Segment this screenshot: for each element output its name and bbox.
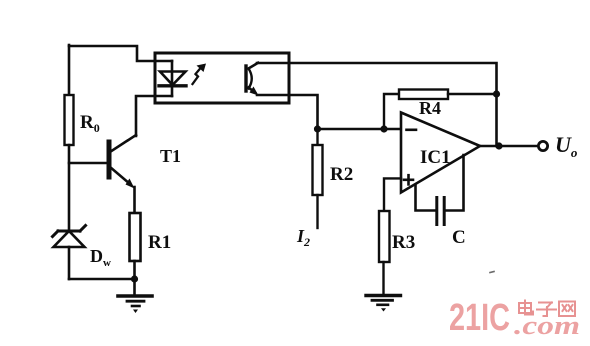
resistor R4 (399, 90, 448, 100)
wire bottom-left rail (69, 278, 135, 281)
svg-text:Dw: Dw (90, 246, 111, 269)
op-amp minus sign (407, 129, 417, 132)
optocoupler box (155, 53, 289, 103)
svg-text:R2: R2 (330, 164, 353, 185)
label T1 (160, 146, 181, 166)
wire R4 left (384, 94, 399, 129)
svg-text:R0: R0 (80, 112, 100, 135)
phototransistor in optocoupler (246, 63, 259, 96)
label R3 (392, 232, 415, 253)
node inverting input (380, 125, 387, 132)
wire T1 collector to LED cathode (136, 96, 172, 136)
svg-text:R1: R1 (148, 232, 171, 253)
wire op-amp output (480, 145, 538, 148)
label C (452, 227, 466, 248)
wire base of T1 (69, 162, 106, 165)
svg-text:T1: T1 (160, 146, 181, 166)
node R4 right rail (493, 90, 500, 97)
node output (495, 142, 502, 149)
label R4 (419, 98, 441, 118)
wire R0 top (68, 45, 71, 95)
label I2 (296, 226, 310, 249)
wire R2 bottom input terminal (316, 195, 318, 228)
label R0 (80, 112, 100, 135)
label IC1 (420, 147, 451, 168)
ground left (118, 279, 152, 313)
op-amp plus sign (404, 175, 413, 184)
transistor T1 (109, 135, 136, 189)
svg-text:Uo: Uo (555, 132, 578, 160)
svg-text:.com: .com (514, 311, 580, 340)
node junction R1/ground (131, 275, 138, 282)
svg-text:IC1: IC1 (420, 147, 451, 168)
label R2 (330, 164, 353, 185)
wire R4 right (448, 93, 497, 95)
op-amp IC1 (401, 113, 480, 193)
ground right (366, 296, 401, 312)
label R1 (148, 232, 171, 253)
resistor R1 (130, 213, 141, 261)
label Dw (90, 246, 111, 269)
wire noninverting input (384, 178, 401, 211)
resistor R3 (379, 211, 390, 262)
LED light arrow (193, 64, 207, 85)
wire R1 bottom (133, 261, 136, 279)
resistor R0 (65, 95, 74, 145)
wire R0 bottom to zener (68, 145, 71, 231)
speck artifact (490, 272, 494, 273)
svg-text:21IC: 21IC (449, 297, 510, 339)
wire R3 bottom (382, 262, 384, 295)
watermark 21IC (449, 297, 510, 339)
output terminal circle (538, 141, 547, 150)
svg-text:R3: R3 (392, 232, 415, 253)
wire node to inverting input (318, 128, 402, 130)
label Uo (555, 132, 578, 160)
watermark .com (514, 311, 580, 340)
LED in optocoupler (159, 61, 186, 96)
wire supply top-left (69, 46, 172, 61)
svg-text:R4: R4 (419, 98, 441, 118)
node R2 top (314, 125, 321, 132)
capacitor C wires (416, 155, 464, 211)
wire zener bottom (68, 247, 71, 279)
wire T1 emitter to R1 (133, 187, 136, 213)
svg-text:I2: I2 (296, 226, 310, 249)
watermark dianziwang 电子网 (519, 301, 575, 317)
svg-text:C: C (452, 227, 466, 248)
zener diode Dw (53, 226, 86, 248)
wire collector top rail (257, 63, 497, 146)
wire emitter to node (257, 95, 318, 129)
capacitor C (437, 198, 444, 225)
resistor R2 (313, 129, 323, 195)
